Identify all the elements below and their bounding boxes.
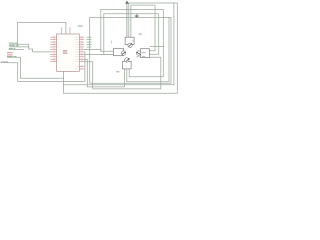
gray label text above IC right <box>78 26 83 27</box>
wire net from IC right pin row10 to bottom box left pin <box>84 59 124 87</box>
transistor Q4 circle with emitter arrow <box>125 58 130 62</box>
transistor Q3 circle with emitter arrow <box>136 51 141 55</box>
gray sheet label text far left <box>1 62 8 63</box>
net label text at left wire 6 <box>7 55 13 58</box>
IC U1 body <box>57 34 80 71</box>
red pin text at left row 5 <box>7 54 13 55</box>
wire net D: top bus y9 from left box pin1 down right side to bottom box right pin <box>101 9 164 76</box>
IC U1 value text <box>63 53 68 54</box>
transistor Q1 top box <box>125 37 134 44</box>
IC U1 left pins <box>50 37 56 62</box>
wire net B: top box pin3 over to right box pin1 <box>131 5 155 51</box>
wire ring net E rectangle <box>90 18 171 84</box>
wire tap right box top-right pin to net D riser <box>150 45 164 47</box>
junction at 169,17.5 <box>168 17 169 18</box>
transistor Q4 bottom box <box>123 61 132 69</box>
wire net G: bottom box middle pin riser to ring E top <box>127 18 169 82</box>
wire net from IC right pin row11 around bottom to right box lower pin <box>84 57 161 89</box>
IC U1 top pins <box>62 27 70 34</box>
power symbol GND <box>135 14 139 18</box>
power symbol VCC <box>125 1 129 38</box>
IC U1 right pin number texts <box>81 36 83 68</box>
wire tap from IC right pin row6 to net D <box>84 48 101 50</box>
wire tap y84.6 from IC bottom riser to outer loop top <box>64 3 174 85</box>
junction at 63.5,84.6 <box>63 84 64 85</box>
red pin text at left row 4 <box>7 52 13 53</box>
transistor Q3 inner texts <box>142 52 146 57</box>
transistor Q4 label text <box>116 71 119 72</box>
transistor Q1 circle with emitter arrow <box>128 43 132 47</box>
IC U1 faint pin name texts inside body <box>58 37 61 62</box>
junction at 174.5,3 <box>173 2 174 3</box>
net label text at left wire 1 <box>9 42 14 45</box>
wire net LBL1: left label, staircase to IC left pin 7, riser to IC top middle pin <box>9 22 66 52</box>
junction at 100.8,49.45 <box>100 49 101 50</box>
small label right of Q3 top <box>136 55 139 58</box>
junction at 28.7,46.9 <box>28 46 29 47</box>
net label text at left wire 2 <box>9 44 15 47</box>
junction at 63.5,78.2 <box>63 78 64 79</box>
junction at 103.8,54.35 <box>103 54 104 55</box>
wire short stub net LBL3 <box>9 49 24 51</box>
wire net LBL4 to bottom bus y78 <box>7 57 64 78</box>
wire net LBL5 to vertical riser x86 joining IC right pin row7 <box>7 52 85 82</box>
transistor Q1 inner pin number texts <box>132 40 134 42</box>
stray pin mark left of Q1 <box>110 41 112 44</box>
transistor Q1 label text <box>139 34 142 35</box>
net label text at left wire 3 <box>9 47 13 50</box>
transistor Q2 left box <box>114 48 124 55</box>
junction at 161.5,46.4 <box>163 46 164 47</box>
transistor Q3 right box <box>141 49 150 58</box>
wire net F: bus y14.2 linking left box pin2 and right box pin2 <box>104 14 159 55</box>
IC U1 left pin number texts <box>53 36 55 61</box>
wire tap from IC right pin row8 to net F <box>84 53 113 55</box>
junction at 17.5,44.2 <box>17 44 18 45</box>
wire net LBL2 to staircase riser <box>9 46 28 48</box>
transistor Q2 circle with emitter arrow <box>121 51 126 55</box>
wire net A outer loop: IC bottom pin around sheet to top box pin2 <box>64 3 178 93</box>
IC U1 net label texts right of top right pins <box>87 37 92 47</box>
IC U1 right pins <box>79 37 84 69</box>
IC U1 reference text U? <box>63 50 67 51</box>
